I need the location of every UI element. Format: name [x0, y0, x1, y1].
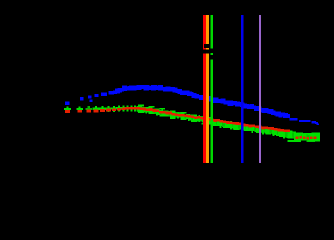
- blue model curve: thick band: [113, 85, 290, 118]
- green model band (dense error-bar caps, right part): [136, 106, 320, 142]
- red model far-right dotted tail: [296, 136, 317, 139]
- green model error-bar markers (left part): [64, 106, 142, 113]
- green vertical line: [211, 15, 213, 163]
- red model points (left squares): [65, 107, 140, 113]
- blue vertical line: [241, 15, 243, 163]
- blue model curve: thin dashed tail: [290, 118, 320, 125]
- red model dashes (middle): [140, 107, 290, 132]
- purple vertical line: [259, 15, 261, 163]
- green lower cap segment far right: [288, 140, 302, 142]
- blue model curve: isolated markers (left): [65, 91, 114, 105]
- orange vertical line: [206, 15, 209, 163]
- green band error-bar cap ticks: [138, 105, 317, 142]
- black label text over lines (cutouts): [203, 44, 213, 60]
- red vertical line: [203, 15, 206, 163]
